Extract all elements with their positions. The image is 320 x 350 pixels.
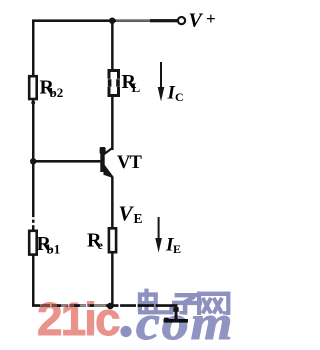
node junction dot base-left rail bbox=[30, 158, 36, 164]
hanzi WANG bbox=[197, 292, 230, 315]
ground bbox=[164, 319, 189, 323]
joint blob below Rb2 bbox=[31, 101, 35, 105]
node junction dot top (RL branch to rail) bbox=[109, 18, 115, 24]
hanzi ZI bbox=[172, 293, 202, 315]
resistor Rb1 bbox=[29, 231, 37, 255]
resistor Rb2 bbox=[29, 76, 37, 99]
node junction dot bottom (Re branch) bbox=[107, 303, 114, 310]
hanzi DIAN bbox=[138, 289, 174, 315]
current arrow IE bbox=[155, 217, 162, 253]
wire left vertical rail bbox=[32, 20, 35, 306]
current arrow IC bbox=[158, 62, 165, 102]
wire faded segments where watermark glyphs cross (scan look) bbox=[40, 304, 106, 307]
wire ground drop bbox=[175, 306, 178, 320]
wire RL branch upper bbox=[111, 20, 114, 70]
transistor VT bbox=[100, 147, 113, 178]
wire top horizontal V+ rail bbox=[32, 19, 177, 22]
wire below Re bbox=[111, 254, 114, 307]
wire emitter vertical bbox=[111, 177, 114, 227]
resistor Re bbox=[109, 228, 116, 252]
wire base horizontal bbox=[33, 160, 101, 163]
wire nicks (scan texture) bbox=[32, 217, 156, 307]
resistor RL bbox=[107, 71, 121, 96]
wire bottom horizontal bbox=[32, 304, 178, 307]
terminal V+ circle bbox=[178, 17, 185, 24]
wire collector vertical bbox=[111, 97, 114, 150]
